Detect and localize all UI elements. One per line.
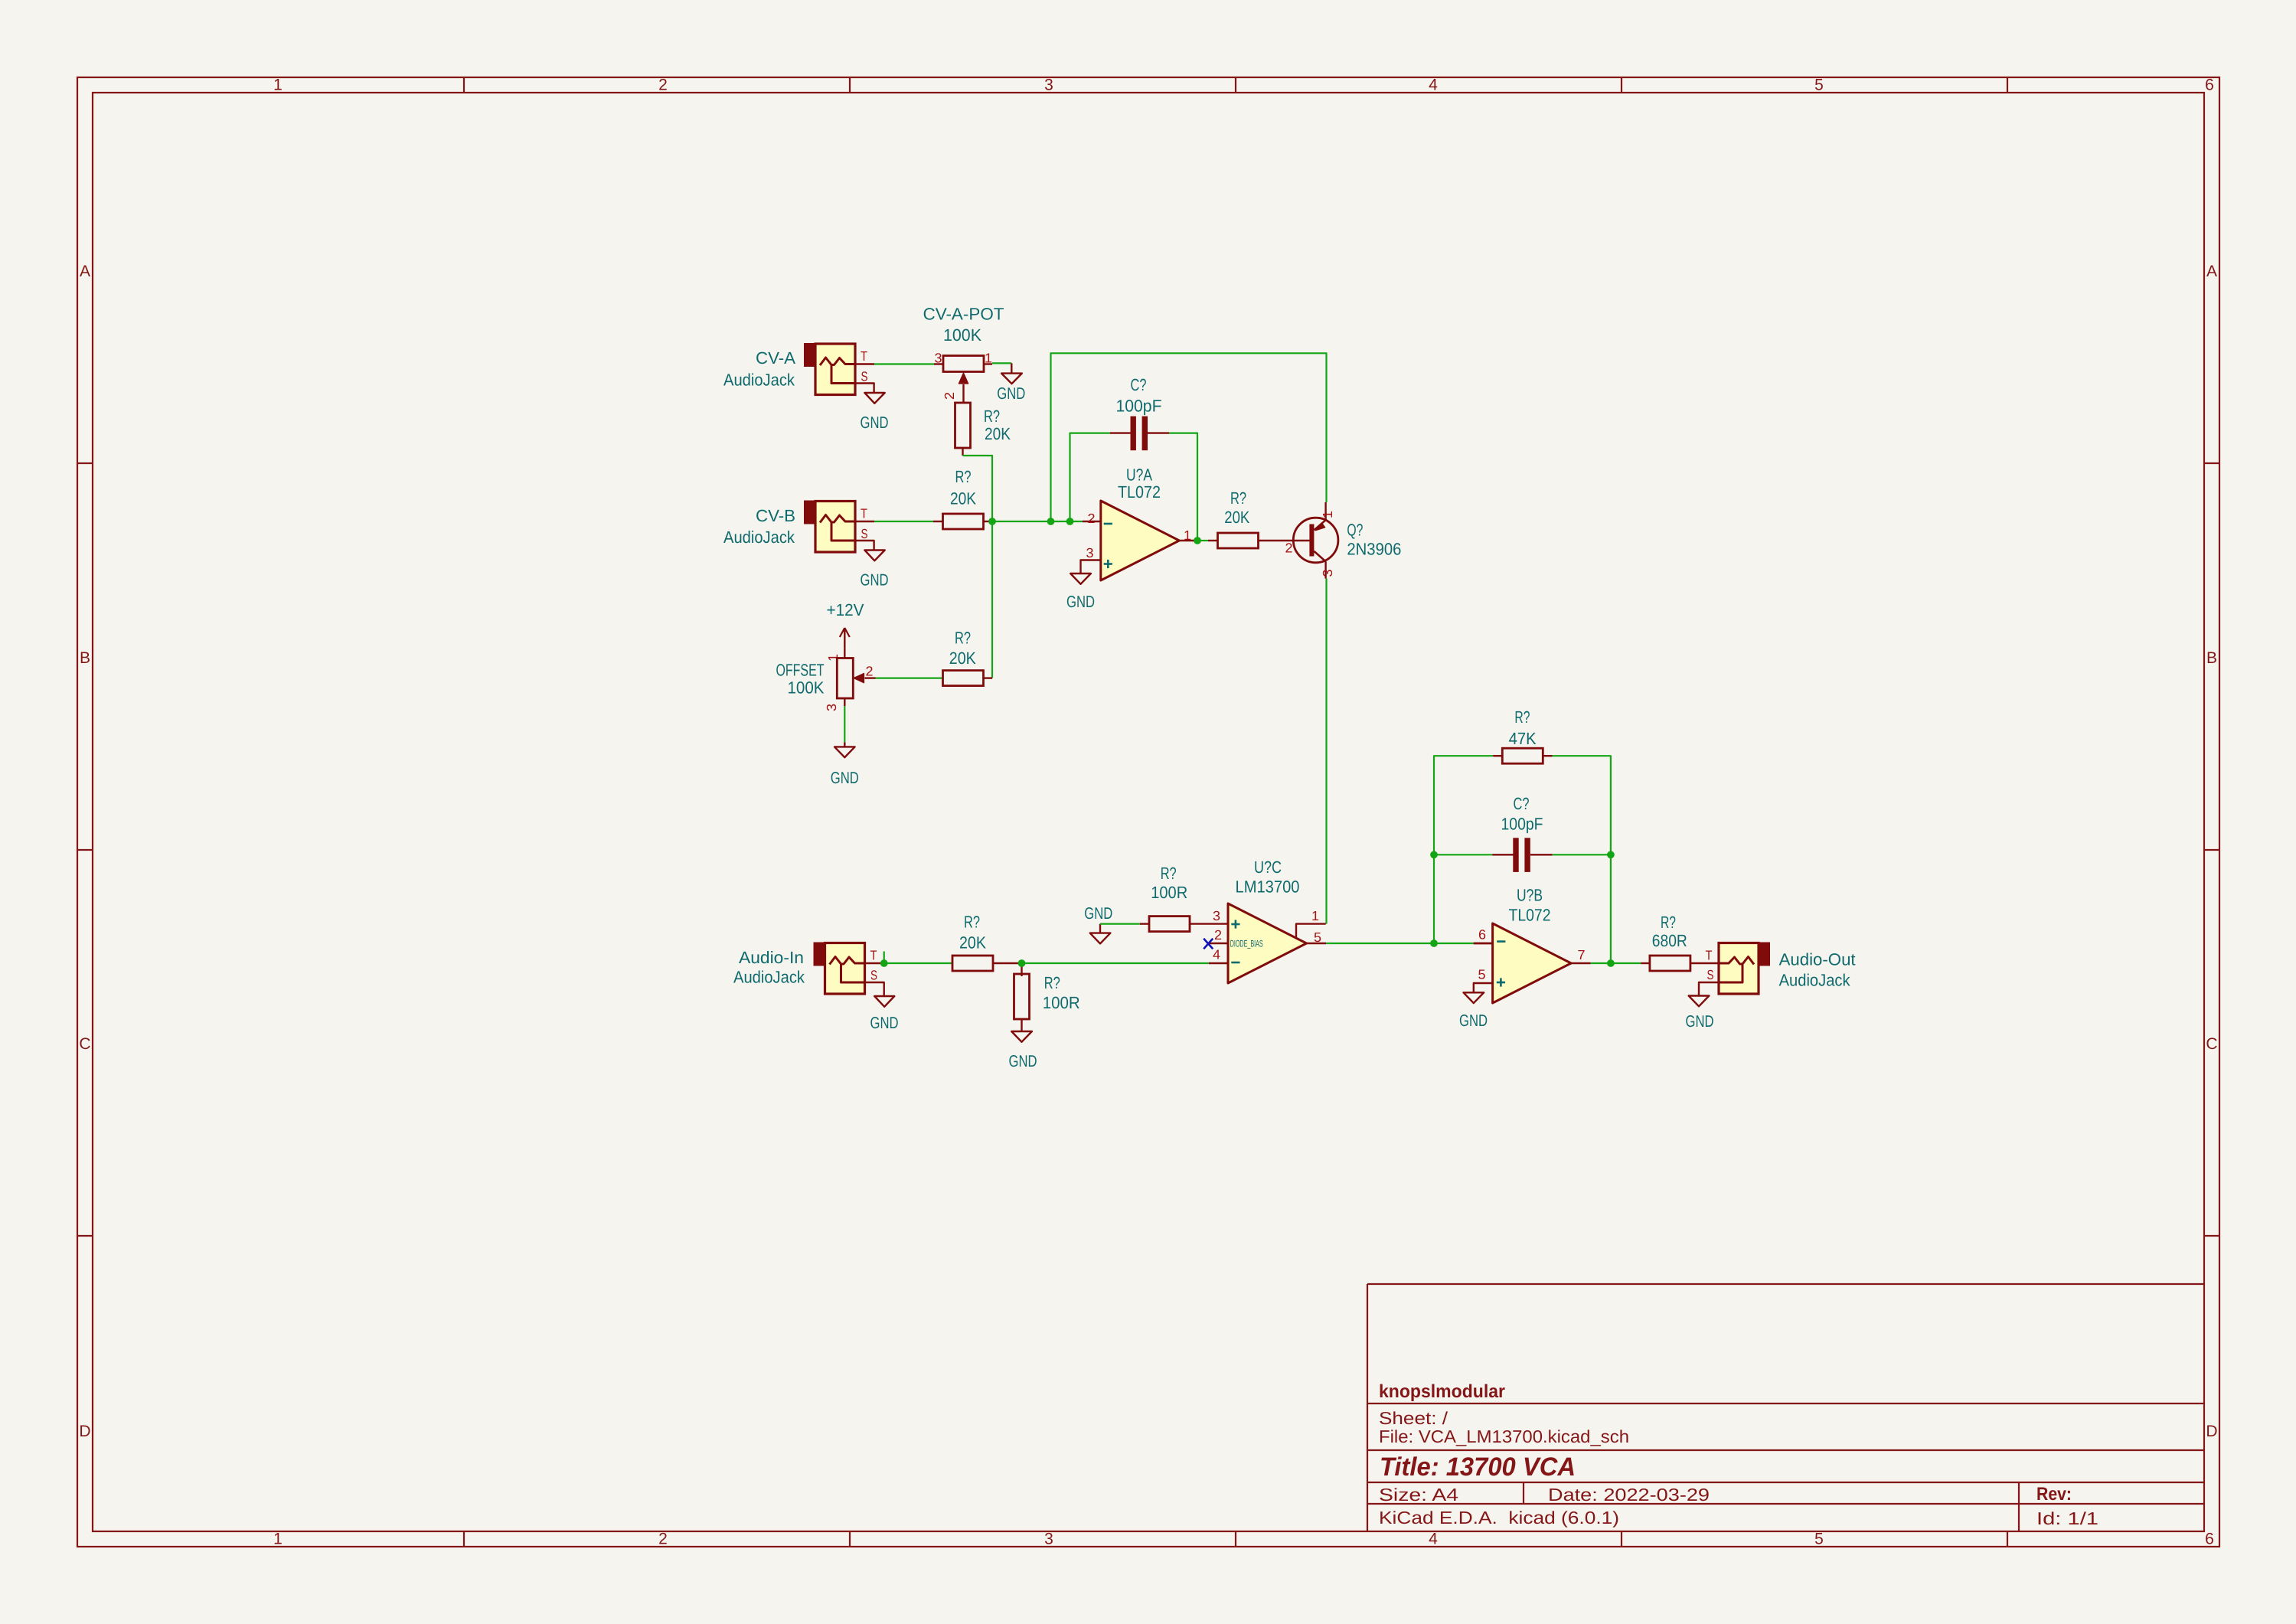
svg-text:T: T	[861, 348, 867, 364]
svg-text:Rev:: Rev:	[2036, 1484, 2072, 1505]
svg-text:knopslmodular: knopslmodular	[1379, 1381, 1505, 1402]
svg-text:5: 5	[1814, 1531, 1824, 1548]
svg-text:CV-A: CV-A	[756, 348, 795, 368]
svg-text:GND: GND	[831, 769, 859, 787]
svg-text:2: 2	[1214, 927, 1222, 943]
svg-text:Audio-Out: Audio-Out	[1779, 950, 1856, 969]
svg-text:R?: R?	[1230, 489, 1246, 508]
svg-text:U?A: U?A	[1126, 466, 1152, 485]
svg-text:AudioJack: AudioJack	[1779, 970, 1851, 989]
svg-text:R?: R?	[1661, 913, 1676, 932]
svg-text:C?: C?	[1131, 375, 1147, 394]
svg-text:Audio-In: Audio-In	[739, 948, 804, 967]
svg-text:1: 1	[273, 1531, 283, 1548]
svg-text:Id: 1/1: Id: 1/1	[2036, 1508, 2098, 1528]
svg-text:TL072: TL072	[1509, 906, 1551, 925]
svg-text:GND: GND	[1459, 1011, 1488, 1030]
svg-text:680R: 680R	[1652, 931, 1687, 950]
svg-text:R?: R?	[1161, 864, 1177, 883]
svg-text:T: T	[870, 948, 877, 963]
svg-text:3: 3	[1044, 1531, 1053, 1548]
svg-text:C: C	[2206, 1035, 2217, 1053]
svg-text:100K: 100K	[943, 325, 981, 345]
svg-text:6: 6	[2205, 1531, 2214, 1548]
svg-text:KiCad E.D.A. kicad (6.0.1): KiCad E.D.A. kicad (6.0.1)	[1379, 1508, 1619, 1528]
svg-text:2: 2	[866, 664, 874, 679]
svg-text:GND: GND	[997, 384, 1025, 403]
svg-text:A: A	[2206, 263, 2217, 280]
svg-text:R?: R?	[955, 629, 971, 648]
svg-text:T: T	[861, 506, 867, 521]
svg-text:3: 3	[1044, 77, 1053, 94]
svg-text:3: 3	[824, 704, 839, 711]
svg-text:GND: GND	[1084, 904, 1112, 923]
svg-text:5: 5	[1814, 77, 1824, 94]
svg-text:R?: R?	[964, 913, 980, 932]
svg-text:A: A	[80, 263, 90, 280]
svg-text:1: 1	[1320, 511, 1335, 518]
svg-text:AudioJack: AudioJack	[733, 968, 805, 987]
svg-text:C: C	[79, 1035, 90, 1053]
svg-text:3: 3	[935, 351, 942, 366]
svg-text:B: B	[2206, 649, 2217, 667]
svg-text:B: B	[80, 649, 90, 667]
svg-text:6: 6	[2205, 77, 2214, 94]
svg-text:2: 2	[658, 77, 668, 94]
svg-text:4: 4	[1213, 947, 1220, 962]
svg-text:2: 2	[1088, 511, 1096, 526]
svg-text:S: S	[861, 526, 868, 541]
svg-text:6: 6	[1478, 927, 1486, 943]
svg-text:S: S	[1707, 967, 1714, 982]
svg-text:1: 1	[1311, 908, 1319, 923]
svg-text:AudioJack: AudioJack	[723, 528, 795, 547]
svg-text:GND: GND	[1066, 593, 1095, 611]
svg-text:OFFSET: OFFSET	[776, 661, 825, 680]
svg-text:2: 2	[942, 392, 957, 400]
svg-text:3: 3	[1320, 570, 1335, 577]
svg-text:4: 4	[1429, 77, 1438, 94]
svg-text:DIODE_BIAS: DIODE_BIAS	[1230, 938, 1263, 949]
svg-text:GND: GND	[861, 571, 889, 590]
svg-text:GND: GND	[1009, 1052, 1037, 1070]
svg-text:20K: 20K	[950, 489, 976, 508]
svg-text:GND: GND	[861, 413, 889, 432]
svg-text:100R: 100R	[1043, 993, 1080, 1012]
svg-text:R?: R?	[1044, 973, 1060, 992]
svg-text:LM13700: LM13700	[1236, 877, 1300, 897]
svg-text:CV-A-POT: CV-A-POT	[923, 305, 1004, 324]
svg-text:100pF: 100pF	[1116, 397, 1162, 416]
svg-text:GND: GND	[1686, 1012, 1714, 1031]
svg-text:1: 1	[273, 77, 283, 94]
svg-text:20K: 20K	[949, 649, 976, 668]
svg-text:100pF: 100pF	[1501, 815, 1543, 834]
svg-text:AudioJack: AudioJack	[723, 371, 795, 390]
svg-text:D: D	[79, 1423, 90, 1440]
svg-text:Sheet: /: Sheet: /	[1379, 1408, 1448, 1428]
svg-text:5: 5	[1478, 967, 1486, 982]
svg-text:3: 3	[1213, 908, 1220, 923]
svg-text:+12V: +12V	[827, 600, 864, 619]
svg-text:Title: 13700 VCA: Title: 13700 VCA	[1380, 1452, 1576, 1482]
svg-text:20K: 20K	[959, 933, 986, 953]
svg-text:D: D	[2206, 1423, 2217, 1440]
svg-text:S: S	[870, 968, 877, 983]
svg-text:4: 4	[1429, 1531, 1438, 1548]
svg-text:U?B: U?B	[1517, 885, 1543, 904]
svg-text:100R: 100R	[1151, 883, 1187, 902]
svg-text:47K: 47K	[1509, 729, 1537, 748]
svg-text:2: 2	[1285, 541, 1293, 556]
svg-text:TL072: TL072	[1118, 482, 1161, 502]
svg-text:GND: GND	[870, 1014, 899, 1032]
svg-text:100K: 100K	[788, 678, 825, 698]
svg-text:R?: R?	[1514, 707, 1530, 727]
svg-text:20K: 20K	[985, 424, 1011, 443]
svg-text:Date: 2022-03-29: Date: 2022-03-29	[1548, 1485, 1710, 1505]
svg-text:T: T	[1706, 948, 1713, 963]
svg-text:20K: 20K	[1224, 508, 1249, 527]
svg-text:S: S	[861, 369, 868, 384]
svg-text:R?: R?	[984, 407, 1000, 426]
svg-text:Q?: Q?	[1347, 521, 1363, 540]
svg-text:2N3906: 2N3906	[1347, 540, 1401, 559]
svg-text:3: 3	[1086, 545, 1094, 560]
svg-text:CV-B: CV-B	[756, 506, 795, 525]
svg-text:2: 2	[658, 1531, 668, 1548]
svg-text:C?: C?	[1514, 794, 1530, 813]
svg-text:Size: A4: Size: A4	[1379, 1485, 1458, 1505]
svg-text:File: VCA_LM13700.kicad_sch: File: VCA_LM13700.kicad_sch	[1379, 1426, 1629, 1446]
svg-text:7: 7	[1578, 947, 1586, 962]
svg-text:U?C: U?C	[1254, 858, 1282, 877]
svg-text:R?: R?	[955, 467, 972, 486]
